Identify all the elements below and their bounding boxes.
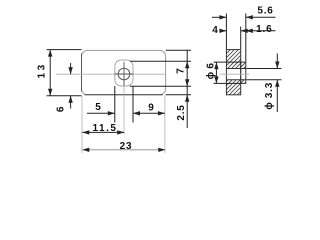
centerline horizontal xyxy=(56,73,166,75)
dimension 5.6 arrow left-pointing xyxy=(246,15,253,19)
dimension 11.5 right arrow xyxy=(117,130,124,134)
dimension 7 arrow down (shared with 2.5) xyxy=(185,79,189,86)
svg-text:ϕ3.3: ϕ3.3 xyxy=(264,82,275,110)
dimension 6 upper segment xyxy=(70,63,72,74)
svg-text:6: 6 xyxy=(56,106,67,112)
extension line phi6 bottom xyxy=(214,82,241,84)
dimension 13 arrow down xyxy=(48,89,52,96)
dimension phi6 line xyxy=(215,62,217,83)
dimension phi3.3 lower segment xyxy=(276,80,278,112)
extension line plate bottom right xyxy=(166,94,191,96)
svg-text:23: 23 xyxy=(120,141,133,152)
svg-text:13: 13 xyxy=(37,62,48,78)
part outline (front view plate 23x13) xyxy=(82,50,166,94)
centerline vertical xyxy=(123,63,125,135)
dimension phi3.3 upper segment xyxy=(276,54,278,69)
section centerline xyxy=(220,73,249,75)
extension line section left up xyxy=(225,14,227,50)
extension line phi6 top xyxy=(214,61,241,63)
extension line phi3.3 bottom xyxy=(247,79,282,81)
section plate outline xyxy=(226,50,240,95)
dimension phi6 arrow down xyxy=(214,76,218,83)
svg-text:7: 7 xyxy=(176,68,187,74)
dimension 5.6 left segment xyxy=(212,16,226,18)
extension line top-right xyxy=(166,49,191,51)
dimension 9 line xyxy=(133,112,165,114)
dimension 7 line xyxy=(186,50,188,128)
extension line plate right up xyxy=(240,27,242,50)
section hole top line xyxy=(226,68,245,70)
svg-text:2.5: 2.5 xyxy=(176,104,187,120)
dimension 6 down arrow xyxy=(68,67,72,74)
extension line boss right up xyxy=(245,14,247,62)
dimension 5 line xyxy=(87,112,115,114)
extension line left gray xyxy=(81,96,83,154)
part outline left edge accent xyxy=(81,54,83,92)
dimension 1.6 arrow left-pointing xyxy=(246,29,253,33)
section boss outline xyxy=(241,62,246,83)
dimension 4 left segment xyxy=(220,30,227,32)
dimension 5.6 right arrow segment xyxy=(246,16,276,18)
dimension 5.6 arrow right-pointing xyxy=(219,15,226,19)
extension line right gray xyxy=(164,96,166,154)
extension line top-left xyxy=(47,49,82,51)
dimension 5 arrow xyxy=(108,111,115,115)
hole circle xyxy=(118,68,130,80)
boss top extension line xyxy=(130,60,191,62)
extension line boss left xyxy=(114,86,116,123)
svg-text:4: 4 xyxy=(212,25,218,36)
dimension 11.5 left arrow xyxy=(82,130,89,134)
svg-text:9: 9 xyxy=(148,103,154,114)
dimension 13 line xyxy=(49,50,51,96)
dimension 9 right arrow xyxy=(158,111,165,115)
extension line boss bottom right xyxy=(130,85,191,87)
extension line bottom-left xyxy=(47,95,82,97)
boss pad (front view rounded square around hole) xyxy=(115,60,133,86)
dimension 4 right segment shared with 1.6 xyxy=(241,30,276,32)
dimension 6 up arrow xyxy=(68,96,72,103)
dimension 4 arrow right-pointing xyxy=(219,29,226,33)
section hole bottom line xyxy=(226,79,245,81)
crosshair horizontal xyxy=(115,73,134,75)
dimension phi3.3 up arrow xyxy=(275,80,279,87)
svg-text:5.6: 5.6 xyxy=(257,5,273,16)
extension line boss right xyxy=(132,86,134,122)
crosshair vertical xyxy=(123,62,125,86)
dimension phi6 arrow up xyxy=(214,62,218,69)
part outline bottom edge accent xyxy=(85,94,164,96)
dimension phi3.3 down arrow xyxy=(275,62,279,69)
dimension 11.5 line xyxy=(82,131,124,133)
dimension 9 left arrow xyxy=(133,111,140,115)
svg-text:1.6: 1.6 xyxy=(256,24,272,35)
dimension 23 left arrow xyxy=(82,148,89,152)
svg-text:ϕ6: ϕ6 xyxy=(206,63,217,80)
dimension 7 arrow up xyxy=(185,61,189,68)
svg-text:11.5: 11.5 xyxy=(93,123,118,134)
dimension 23 line xyxy=(82,149,165,151)
extension line phi3.3 top xyxy=(247,68,282,70)
dimension 6 lower segment xyxy=(70,96,72,109)
dimension 4 arrow left-pointing xyxy=(241,29,248,33)
svg-text:5: 5 xyxy=(95,102,101,113)
dimension 2.5 up arrow xyxy=(185,95,189,102)
dimension 23 right arrow xyxy=(158,148,165,152)
dimension 13 arrow up xyxy=(48,50,52,57)
section hatching xyxy=(216,0,260,128)
